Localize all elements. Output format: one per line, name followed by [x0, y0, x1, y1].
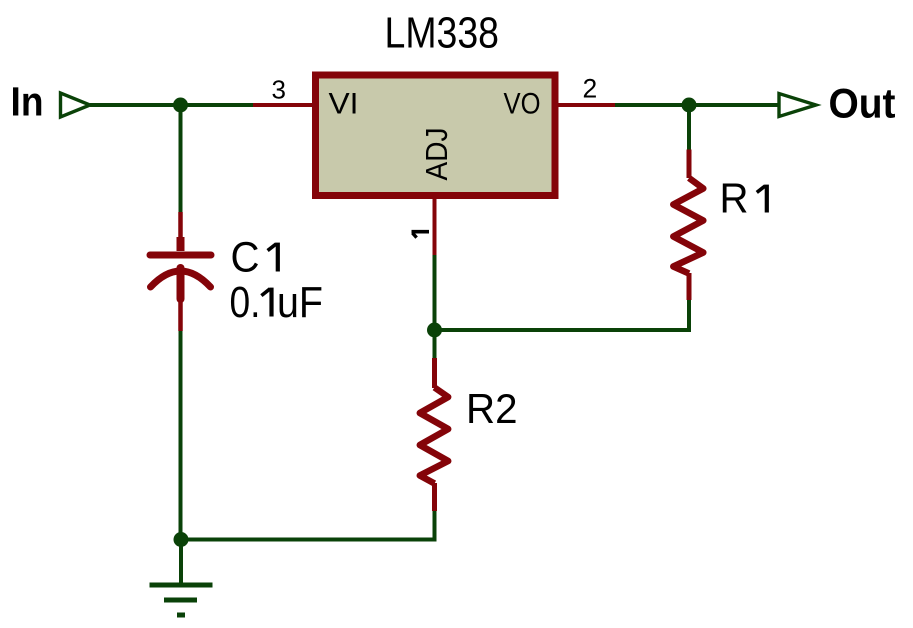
junction ground node	[174, 532, 189, 547]
terminal Out	[779, 94, 816, 117]
pin 2 (VO)	[556, 103, 615, 107]
wire R1 bottom to adj rail	[435, 300, 690, 330]
svg-text:uF: uF	[277, 278, 323, 327]
regulator IC LM338 body	[316, 75, 556, 196]
svg-text:LM338: LM338	[385, 10, 500, 58]
resistor R2	[420, 358, 448, 511]
svg-text:2: 2	[583, 74, 598, 104]
wire R2 bottom to ground rail	[181, 511, 435, 540]
pin 3 (VI)	[253, 103, 314, 107]
svg-text:R: R	[720, 175, 749, 222]
wire ground node to ground symbol	[179, 540, 183, 584]
bottom plate arc	[151, 271, 211, 287]
svg-text:Out: Out	[829, 80, 896, 127]
wire adj node down to R2	[433, 330, 437, 358]
wire output node down to R1	[687, 105, 691, 150]
junction input node	[173, 98, 188, 113]
top lead	[178, 212, 183, 240]
wire C1 bottom to ground node	[179, 331, 183, 540]
ground	[150, 585, 213, 615]
bottom lead	[178, 299, 183, 331]
svg-text:ADJ: ADJ	[419, 128, 454, 181]
svg-text:3: 3	[272, 75, 286, 105]
wire output node to Out terminal	[689, 103, 777, 107]
svg-text:0.: 0.	[230, 278, 261, 327]
svg-text:VO: VO	[504, 88, 541, 121]
top plate	[150, 252, 211, 259]
junction adj node	[427, 323, 442, 338]
wire input node down to C1	[179, 105, 183, 212]
resistor R1	[673, 150, 703, 301]
svg-text:R2: R2	[466, 385, 518, 432]
bottom stem	[177, 268, 185, 299]
svg-text:In: In	[11, 79, 44, 125]
wire pin2 to output node	[615, 103, 779, 107]
wire ADJ pin to adj node	[433, 255, 437, 330]
svg-text:C: C	[231, 234, 260, 282]
pin number 1	[412, 232, 430, 238]
junction output node	[682, 98, 697, 113]
svg-text:VI: VI	[329, 88, 359, 121]
wire In to pin3	[90, 103, 253, 107]
pin 1 (ADJ)	[433, 196, 437, 255]
capacitor C1	[150, 212, 211, 331]
terminal In	[61, 93, 91, 117]
